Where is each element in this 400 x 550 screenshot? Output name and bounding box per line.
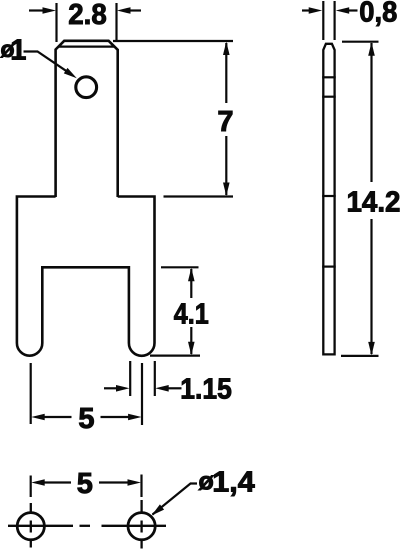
label o1,4 text	[199, 467, 255, 499]
right hole vertical centerline	[140, 500, 142, 549]
dimension 0,8 left arrow	[302, 7, 322, 14]
bottom dimension 5 right arrow	[99, 479, 141, 486]
left hole vertical centerline	[30, 503, 32, 548]
centerline dash between holes	[80, 525, 91, 527]
dimension 7 line lower segment	[225, 136, 227, 195]
dimension 14.2 top arrow	[368, 42, 375, 56]
leader arrowhead for o1	[64, 68, 77, 78]
svg-text:5: 5	[78, 403, 94, 435]
dimension 14.2 bottom arrow	[368, 342, 375, 356]
dimension 4.1 line lower segment	[190, 327, 192, 354]
dimension 7 bottom arrow	[223, 183, 230, 197]
dimension 4.1 bottom extension line	[150, 355, 200, 357]
dimension 2.8 left extension line	[55, 3, 57, 42]
dimension 7 text	[217, 106, 233, 138]
dimension 4.1 bottom arrow	[188, 342, 195, 356]
dimension 2.8 left arrow	[29, 7, 56, 14]
label o1 text	[1, 35, 27, 67]
dimension 2.8 text	[68, 0, 107, 31]
dimension 4.1 top extension line	[161, 266, 199, 268]
svg-text:7: 7	[217, 106, 233, 138]
dimension 2.8 right extension line	[115, 3, 117, 42]
bottom dimension 5 text	[77, 468, 93, 500]
side view hole projection upper tick	[322, 76, 336, 78]
front view tab outline	[56, 41, 118, 197]
dimension 7 top arrow	[223, 42, 230, 56]
dimension 0,8 right extension line	[334, 1, 336, 40]
front dimension 5 text	[78, 403, 94, 435]
side view slot-top tick	[322, 266, 336, 268]
bottom dimension 5 right extension line	[140, 475, 142, 498]
dimension 1.15 text	[180, 374, 232, 406]
leader line for o1	[24, 52, 68, 72]
leader arrowhead for o1,4	[152, 504, 165, 515]
side view hole projection lower tick	[322, 96, 336, 98]
svg-text:1,4: 1,4	[212, 467, 255, 499]
bottom dimension 5 left arrow	[31, 479, 71, 486]
right hole horizontal centerline	[102, 525, 167, 527]
dimension 7 top extension line	[113, 40, 233, 42]
dimension 14.2 line upper segment	[370, 43, 372, 182]
front dimension 5 left arrow	[31, 414, 71, 421]
dimension 7 bottom extension line	[164, 195, 234, 197]
side view shoulder tick	[322, 195, 336, 197]
svg-text:2.8: 2.8	[68, 0, 107, 31]
dimension 4.1 text	[174, 299, 209, 331]
side view profile outline	[323, 44, 334, 355]
dimension 2.8 right arrow	[117, 7, 141, 14]
bottom dimension 5 left extension line	[30, 476, 32, 498]
dimension 1.15 right arrow	[155, 385, 181, 392]
svg-text:4.1: 4.1	[174, 299, 209, 331]
dimension 14.2 text	[347, 187, 400, 219]
dimension 0,8 right arrow	[336, 7, 358, 14]
footprint left hole circle	[17, 513, 44, 540]
leader line for o1,4	[153, 484, 198, 515]
dimension 0,8 left extension line	[322, 1, 324, 40]
front view body outline with fork legs	[17, 197, 155, 356]
dimension 4.1 top arrow	[188, 268, 195, 282]
front dimension 5 right extension line	[141, 363, 143, 425]
dimension 4.1 line upper segment	[190, 269, 192, 298]
front dimension 5 right arrow	[101, 414, 142, 421]
footprint right hole circle	[128, 513, 155, 540]
front dimension 5 left extension line	[30, 363, 32, 424]
hole o1 in tab	[76, 77, 97, 98]
svg-text:5: 5	[77, 468, 93, 500]
dimension 14.2 bottom extension line	[341, 355, 379, 357]
svg-text:0,8: 0,8	[359, 0, 397, 29]
dimension 14.2 line lower segment	[370, 219, 372, 354]
left hole horizontal centerline	[8, 525, 73, 527]
dimension 7 line upper segment	[225, 43, 227, 103]
svg-text:14.2: 14.2	[347, 187, 400, 219]
dimension 1.15 left arrow	[104, 385, 130, 392]
front view tab chamfer inner line	[59, 45, 115, 47]
dimension 1.15 right extension line	[154, 361, 156, 396]
svg-text:1.15: 1.15	[180, 374, 232, 406]
dimension 1.15 left extension line	[129, 361, 131, 396]
dimension 14.2 top extension line	[342, 41, 379, 43]
dimension 0,8 text	[359, 0, 397, 29]
